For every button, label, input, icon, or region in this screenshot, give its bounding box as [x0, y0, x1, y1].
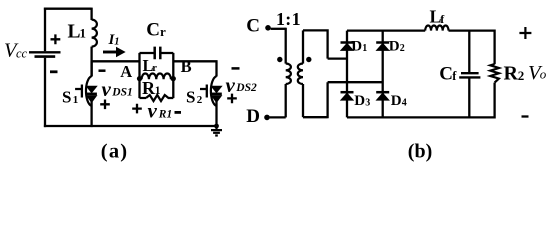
wire top (a) [44, 8, 92, 10]
label plus vDS1 [100, 100, 110, 110]
wire bottom (a) [44, 125, 217, 127]
inductor L1 [90, 8, 92, 20]
svg-text:3: 3 [365, 98, 370, 109]
svg-text:R: R [504, 62, 519, 84]
label minus vR1 [175, 111, 182, 114]
diode D3 [341, 91, 354, 94]
wire S2 source [215, 102, 217, 128]
inductor Lf [425, 25, 448, 30]
svg-text:1: 1 [362, 43, 367, 54]
node dot right (Lr branch) [171, 76, 176, 81]
svg-text:2: 2 [518, 68, 525, 83]
wire D lead [270, 116, 286, 118]
svg-text:DS2: DS2 [235, 82, 257, 94]
capacitor Cr [155, 47, 161, 60]
inductor Lr [140, 78, 142, 80]
diode D1 [341, 41, 354, 44]
svg-text:B: B [181, 57, 192, 76]
svg-text:D: D [351, 38, 362, 54]
svg-text:D: D [391, 93, 402, 109]
svg-text:C: C [146, 19, 160, 40]
svg-text:DS1: DS1 [111, 86, 132, 98]
wire Cf top tap [468, 31, 470, 73]
wire left lower [44, 58, 46, 127]
wire output right bottom [493, 83, 495, 119]
label output minus [522, 115, 529, 117]
battery minus sign [50, 70, 58, 73]
svg-text:C: C [439, 64, 453, 85]
svg-text:1: 1 [80, 26, 87, 41]
resistor R2 [490, 64, 499, 83]
tank box left side [138, 53, 140, 98]
label minus vDS1 [99, 69, 106, 72]
transistor S2 body diode [211, 86, 221, 92]
tank box right side [172, 53, 174, 98]
transformer secondary winding [302, 30, 304, 63]
wire Cf bottom tap [468, 79, 470, 118]
diode D2 [376, 41, 389, 44]
wire S1 drain [90, 61, 92, 76]
svg-text:C: C [246, 16, 260, 37]
transformer primary winding [285, 28, 287, 64]
svg-text:2: 2 [197, 94, 203, 106]
svg-text:o: o [540, 67, 547, 82]
phase dot primary [277, 57, 282, 62]
wire left upper (Vcc positive lead) [44, 8, 46, 52]
wire rail B [173, 61, 217, 76]
transistor S1 channel curve [86, 76, 92, 106]
battery Vcc [29, 51, 61, 53]
transistor S1 body diode [87, 86, 97, 92]
svg-text:D: D [246, 106, 260, 127]
wire bottom rail [347, 116, 495, 118]
svg-text:v: v [102, 77, 112, 101]
svg-text:r: r [152, 63, 157, 74]
label plus vDS2 [227, 94, 237, 104]
bridge right leg [382, 31, 384, 118]
svg-text:cc: cc [16, 47, 28, 61]
svg-text:4: 4 [402, 98, 407, 109]
svg-text:(a): (a) [101, 141, 129, 163]
node dot left (Lr branch) [137, 76, 142, 81]
label minus vDS2 [232, 67, 240, 70]
label output plus [519, 27, 531, 39]
resistor R1 [146, 95, 173, 101]
svg-text:A: A [120, 62, 132, 81]
capacitor Cf [461, 72, 479, 74]
terminal dot D [264, 115, 270, 121]
wire rail A [92, 60, 140, 62]
wire output right top [493, 30, 495, 65]
svg-text:S: S [62, 87, 71, 106]
label plus vR1 [132, 104, 142, 114]
wire Cr branch [140, 52, 174, 54]
svg-text:(b): (b) [408, 140, 432, 162]
svg-text:1: 1 [155, 85, 161, 97]
svg-text:D: D [389, 38, 400, 54]
svg-text:1: 1 [114, 36, 119, 47]
transistor S1 source arrow [87, 96, 97, 103]
svg-text:S: S [186, 87, 195, 106]
diode D4 [376, 91, 389, 94]
wire secondary top feed [303, 29, 347, 58]
terminal dot C [265, 25, 271, 31]
svg-text:2: 2 [400, 43, 405, 54]
battery plus sign [51, 34, 61, 44]
bridge left leg [346, 31, 348, 118]
transistor S2 gate [200, 85, 207, 98]
svg-text:r: r [160, 24, 166, 39]
node junction bottom right [214, 124, 219, 129]
svg-text:R1: R1 [158, 108, 172, 120]
svg-text:v: v [148, 98, 158, 122]
ground [215, 126, 217, 129]
arrow I1 [103, 51, 118, 54]
transistor S2 source arrow [212, 96, 222, 103]
wire S1 source [90, 102, 92, 128]
wire top rail [347, 29, 425, 31]
wire C lead [271, 28, 286, 30]
wire secondary bottom feed [303, 82, 383, 118]
phase dot secondary [306, 57, 311, 62]
svg-text:v: v [226, 73, 236, 97]
wire top rail right [449, 29, 495, 31]
transistor S2 channel curve [211, 76, 217, 106]
transistor S1 gate [75, 85, 82, 98]
svg-text:D: D [354, 93, 365, 109]
svg-text:1:1: 1:1 [276, 9, 301, 29]
svg-text:1: 1 [73, 94, 79, 106]
